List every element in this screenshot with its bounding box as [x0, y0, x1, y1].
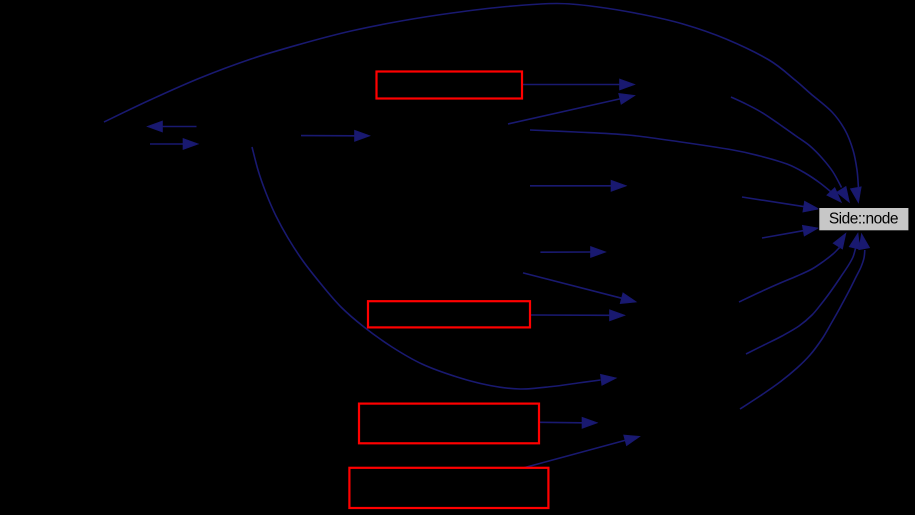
- node Side::node (current function): [819, 208, 909, 231]
- edge node2->node1: [147, 121, 197, 132]
- edge box1->node5: [522, 79, 635, 90]
- edge node5->Side::node top curve2: [731, 97, 850, 203]
- edge nodeP->node7: [540, 246, 606, 257]
- node box2 (truncated, label hidden): [368, 301, 530, 327]
- edge node8->node9: [523, 273, 637, 304]
- node box4 (truncated, label hidden): [349, 468, 548, 508]
- edge box4->node10: [523, 435, 640, 468]
- edge node1->Side::node big top curve: [104, 4, 861, 204]
- edge node4b->Side::node top curve3: [530, 130, 842, 203]
- edge node2->node3: [301, 130, 370, 141]
- edge nodeL1->Side::node left1: [742, 197, 819, 212]
- edge nodeM->Side::node bottom curve3: [740, 234, 870, 410]
- edge nodeL->Side::node bottom curve2: [746, 233, 860, 354]
- edge node9->Side::node bottom curve1: [739, 233, 846, 302]
- edge nodeL2->Side::node left2: [762, 225, 819, 238]
- edge nodeF->node6: [530, 180, 627, 191]
- edge box2->node9: [530, 310, 625, 321]
- node box3 (truncated, label hidden): [359, 404, 539, 444]
- edge node2->node11 long swoop: [252, 147, 617, 389]
- edge box3->node10: [540, 417, 598, 428]
- edge node4->node5: [508, 93, 635, 124]
- node box1 (truncated, label hidden): [377, 72, 523, 99]
- svg-text:Side::node: Side::node: [829, 211, 898, 228]
- edge node1->node2: [150, 138, 199, 149]
